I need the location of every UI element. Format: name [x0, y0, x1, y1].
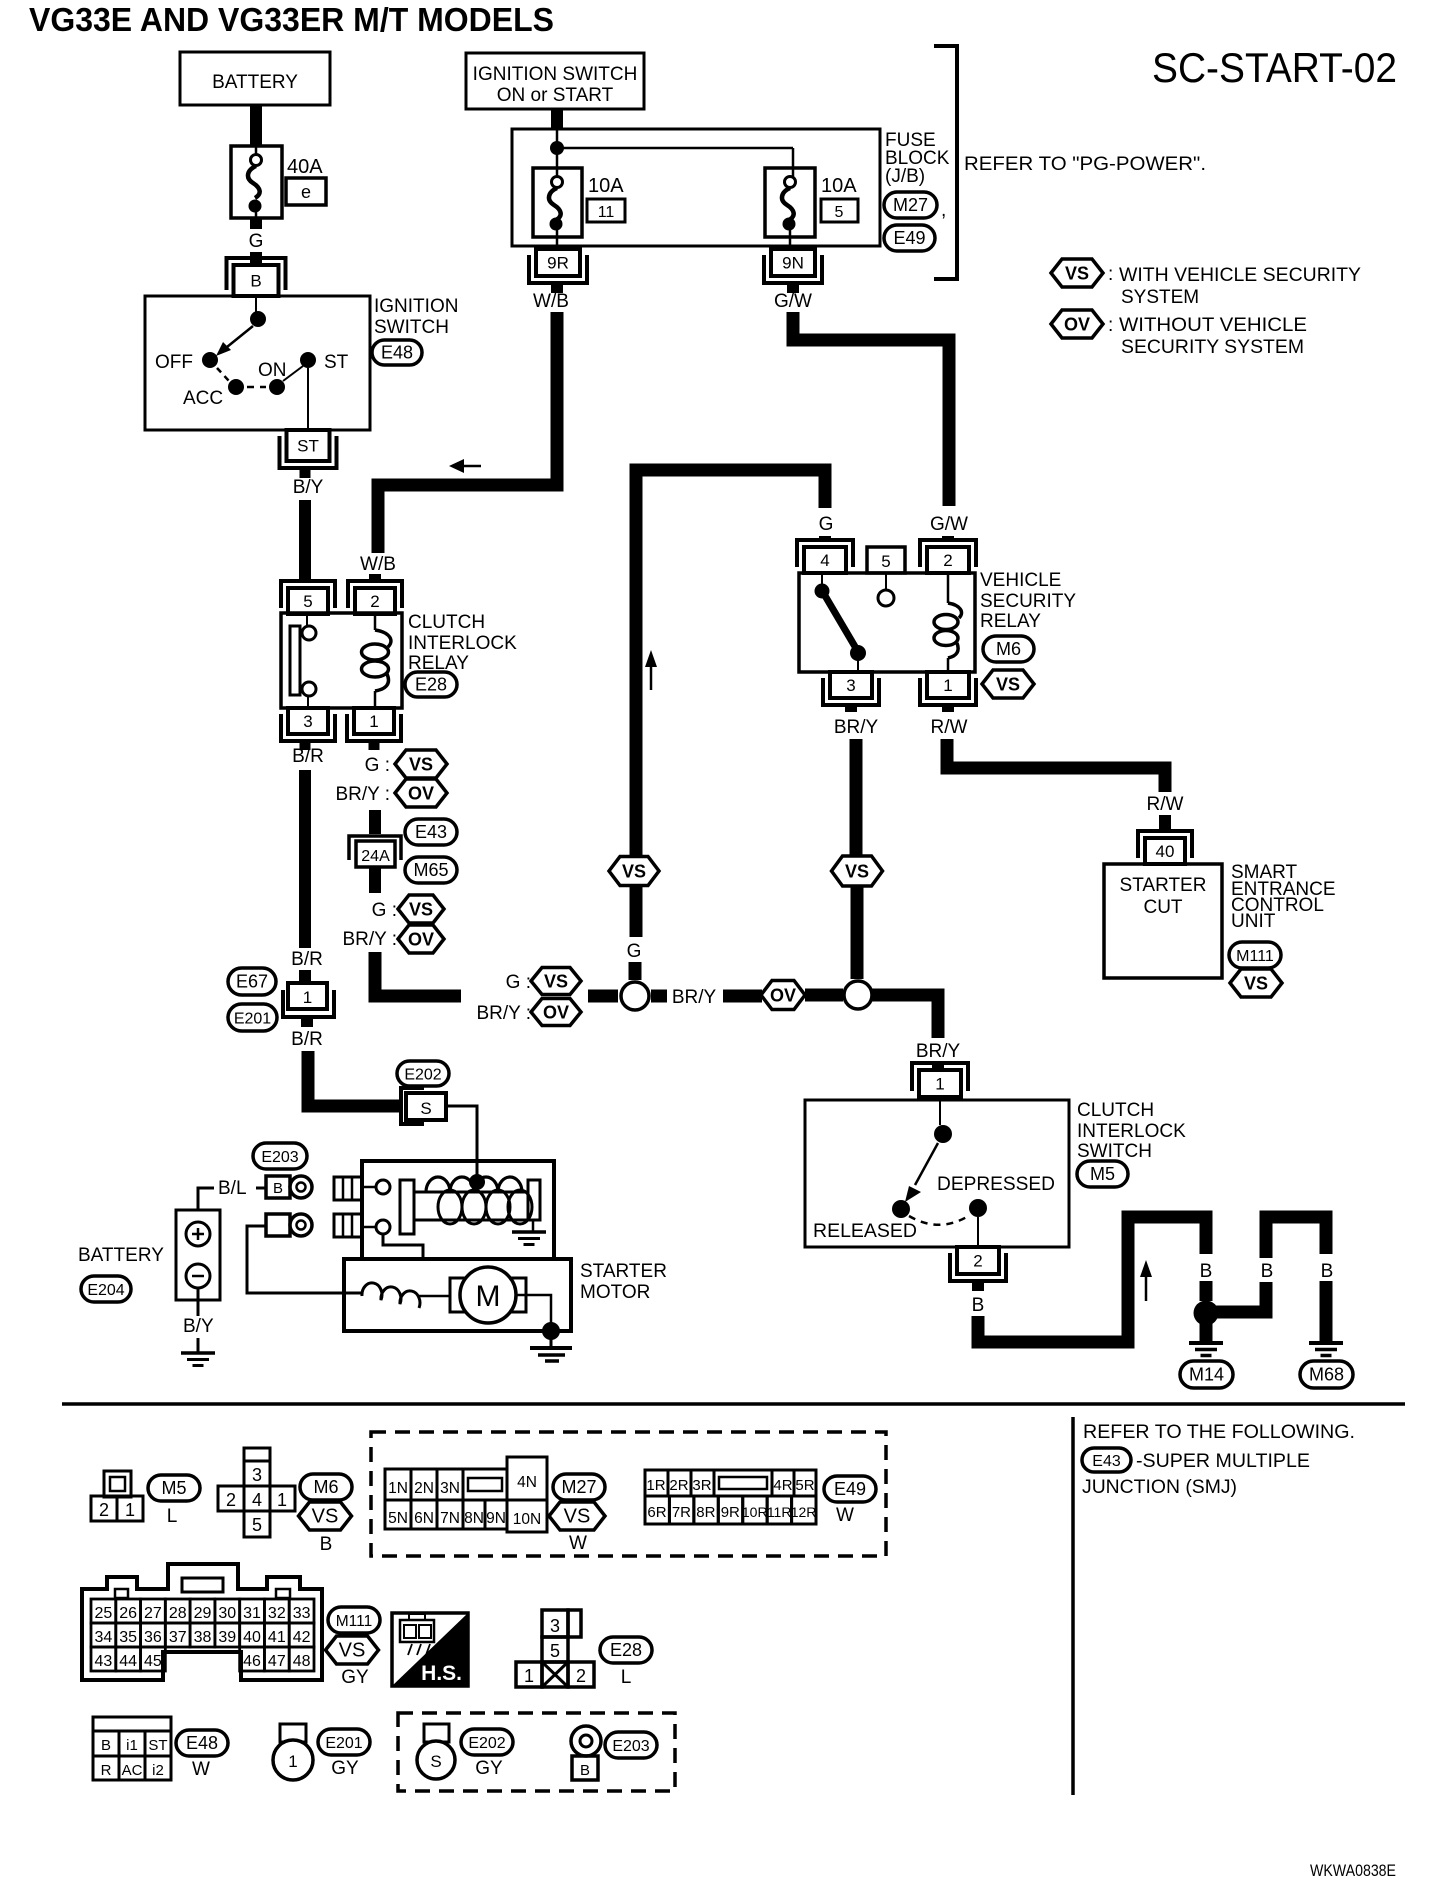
svg-text:VG33E AND VG33ER M/T MODELS: VG33E AND VG33ER M/T MODELS	[29, 1, 554, 38]
wire B/Y ignition to clutch interlock relay pin 5	[300, 468, 311, 582]
connector ref E201 gallery	[318, 1729, 370, 1755]
label IGNITION SWITCH	[374, 296, 458, 338]
svg-text:45: 45	[144, 1653, 162, 1670]
svg-text:5: 5	[252, 1515, 262, 1535]
junction dot solenoid coil	[469, 1174, 485, 1190]
svg-text::: :	[1108, 264, 1113, 285]
svg-text:9R: 9R	[721, 1504, 740, 1521]
legend VS with vehicle security system	[1051, 259, 1361, 308]
svg-text:W: W	[192, 1759, 210, 1780]
wire middle branch up and over	[1266, 1217, 1326, 1258]
connector ref E204	[81, 1276, 131, 1302]
wire label B/R below connector 1	[291, 1029, 323, 1050]
wire label G above node A	[627, 941, 642, 962]
wire G center line to vehicle security relay pin 4	[636, 470, 825, 937]
svg-text:8R: 8R	[696, 1504, 715, 1521]
wire battery to fuse 40A	[250, 105, 262, 146]
svg-text:IGNITION SWITCH: IGNITION SWITCH	[473, 64, 638, 85]
svg-text:i1: i1	[126, 1737, 138, 1754]
wire junction to second branch	[1212, 1282, 1266, 1312]
clutch interlock switch pin 2	[950, 1247, 1006, 1281]
svg-text:INTERLOCK: INTERLOCK	[1077, 1121, 1186, 1142]
svg-text:VS: VS	[312, 1506, 339, 1528]
svg-text:INTERLOCK: INTERLOCK	[408, 633, 517, 654]
svg-text:BR/Y: BR/Y	[916, 1041, 961, 1062]
vehicle security relay pin 4	[797, 540, 853, 573]
svg-text:5N: 5N	[388, 1510, 408, 1527]
connector ref E43	[405, 819, 457, 845]
starter motor field coil	[362, 1283, 450, 1308]
wire stub to pin 40	[1159, 815, 1171, 832]
ignition switch arrow to OFF	[216, 326, 253, 356]
wire BR/Y pin 3 down	[850, 739, 863, 857]
svg-text:36: 36	[144, 1629, 162, 1646]
svg-text:B: B	[580, 1762, 590, 1779]
svg-text:43: 43	[94, 1653, 112, 1670]
svg-text:44: 44	[119, 1653, 137, 1670]
label SMART ENTRANCE CONTROL UNIT	[1231, 862, 1336, 932]
svg-text:M111: M111	[1236, 948, 1274, 965]
vehicle security relay pin 2	[920, 540, 976, 573]
svg-text:40: 40	[243, 1629, 261, 1646]
hexagon VS for M6	[982, 670, 1034, 698]
svg-text::: :	[1108, 315, 1113, 336]
svg-text:SWITCH: SWITCH	[374, 317, 449, 338]
svg-text:E48: E48	[381, 343, 413, 363]
svg-text:B: B	[972, 1295, 985, 1316]
battery supply box	[180, 52, 330, 105]
svg-text:M6: M6	[996, 639, 1021, 659]
svg-text:G: G	[249, 231, 264, 252]
connector ref M6 gallery	[300, 1474, 352, 1500]
svg-text:E49: E49	[893, 228, 925, 248]
label STARTER MOTOR	[580, 1261, 667, 1303]
clutch interlock switch M5 box	[805, 1100, 1069, 1247]
battery positive terminal	[186, 1222, 210, 1246]
svg-text:M111: M111	[336, 1613, 372, 1630]
wire stub node A up	[629, 962, 642, 980]
wire BR/Y to node B	[851, 887, 864, 979]
svg-text:-SUPER MULTIPLE: -SUPER MULTIPLE	[1136, 1451, 1310, 1472]
svg-text:E43: E43	[1092, 1453, 1121, 1470]
svg-text:6R: 6R	[647, 1504, 666, 1521]
svg-text:BATTERY: BATTERY	[212, 72, 298, 93]
wire elbow to junction node A	[375, 952, 461, 996]
svg-text:MOTOR: MOTOR	[580, 1282, 650, 1303]
starter motor box	[344, 1259, 571, 1331]
hexagon VS for M111	[1230, 969, 1282, 997]
connector face M6	[218, 1448, 295, 1537]
starter motor armature M	[450, 1267, 526, 1323]
vehicle security relay M6 box	[799, 573, 975, 672]
label L for M5	[167, 1506, 178, 1527]
wire battery negative down	[197, 1288, 200, 1316]
svg-text:1: 1	[369, 712, 378, 731]
wire label B/L	[218, 1178, 247, 1199]
svg-text:VS: VS	[564, 1506, 591, 1528]
svg-text:E202: E202	[404, 1067, 441, 1084]
solenoid coil winding	[426, 1177, 532, 1224]
connector ref M14	[1180, 1361, 1233, 1388]
connector face M5	[91, 1471, 143, 1521]
wire motor to ground	[516, 1295, 551, 1331]
ignition switch ACC position	[183, 379, 244, 409]
svg-text:26: 26	[119, 1605, 137, 1622]
svg-text:M27: M27	[561, 1477, 596, 1497]
harness symbol H.S.	[392, 1613, 468, 1686]
ignition switch E48 box	[145, 296, 370, 430]
wire B/R down to connector 1	[299, 770, 311, 948]
clutch interlock relay pin 3	[281, 708, 335, 741]
wire stub into connector 1	[299, 970, 311, 983]
svg-text:i2: i2	[152, 1762, 164, 1779]
svg-text:4: 4	[252, 1490, 262, 1510]
junction node inside fuse block	[550, 129, 793, 177]
svg-text:(J/B): (J/B)	[885, 166, 925, 187]
clutch interlock relay pin 1	[347, 708, 401, 741]
svg-text:2R: 2R	[669, 1477, 688, 1494]
svg-text:E49: E49	[834, 1479, 866, 1499]
svg-text:ON: ON	[258, 360, 287, 381]
connector ref E43 SMJ note	[1082, 1448, 1310, 1472]
relay coil M6	[934, 573, 962, 672]
wire name BR/Y with OV below 24A	[342, 925, 444, 953]
connector ref M111 gallery	[328, 1607, 380, 1633]
wire W/B stub below 9R	[551, 283, 563, 293]
svg-text:B/R: B/R	[292, 746, 324, 767]
svg-text:VS: VS	[1244, 974, 1268, 994]
solenoid core	[414, 1180, 540, 1220]
svg-text:,: ,	[941, 200, 946, 221]
connector face E203 ring	[571, 1726, 601, 1780]
svg-text:B: B	[1200, 1261, 1213, 1282]
svg-text:R: R	[101, 1762, 112, 1779]
connector ST below ignition switch	[280, 430, 337, 468]
svg-text:CUT: CUT	[1143, 897, 1182, 918]
connector 24A SMJ	[349, 836, 401, 867]
svg-text:M5: M5	[161, 1478, 186, 1498]
page id SC-START-02	[1152, 44, 1397, 91]
svg-text:BR/Y :: BR/Y :	[476, 1003, 531, 1024]
ignition switch OFF position	[155, 352, 218, 373]
connector ref E48 gallery	[176, 1730, 228, 1756]
battery E204 box	[176, 1210, 220, 1300]
clutch interlock relay pin 2	[348, 581, 402, 614]
connector face M27	[385, 1457, 547, 1532]
starter solenoid box	[362, 1161, 554, 1259]
svg-text:M65: M65	[413, 860, 448, 880]
svg-text:G :: G :	[506, 972, 531, 993]
wire name G : VS at node A	[506, 968, 581, 995]
wire stub below pin 3	[845, 705, 857, 712]
svg-text:M: M	[476, 1280, 501, 1313]
wire node B to clutch interlock switch	[872, 995, 938, 1038]
svg-text:1: 1	[125, 1500, 135, 1520]
connector ref M65	[405, 857, 457, 883]
svg-text:e: e	[301, 182, 311, 202]
svg-text:M68: M68	[1309, 1365, 1344, 1385]
svg-text:ST: ST	[324, 352, 349, 373]
vehicle security relay pin 1	[920, 672, 976, 705]
svg-text:6N: 6N	[414, 1510, 434, 1527]
switch RELEASED contact	[813, 1200, 917, 1242]
ground at starter motor	[530, 1348, 572, 1361]
svg-text:2: 2	[226, 1490, 236, 1510]
svg-text:39: 39	[218, 1629, 236, 1646]
wire label B at M14	[1200, 1261, 1213, 1282]
svg-text:33: 33	[293, 1605, 311, 1622]
wire label BR/Y	[672, 987, 717, 1008]
connector ref E202	[397, 1061, 449, 1086]
wire name BR/Y with OV	[335, 779, 447, 807]
junction dot motor ground	[542, 1322, 560, 1347]
svg-text:12R: 12R	[791, 1504, 817, 1520]
wire stub below pin 3	[300, 741, 311, 750]
svg-text:4: 4	[820, 551, 829, 570]
ignition switch ST position	[300, 352, 349, 373]
solenoid plunger	[400, 1180, 414, 1234]
svg-text:24A: 24A	[361, 848, 390, 865]
svg-text:SWITCH: SWITCH	[1077, 1141, 1152, 1162]
svg-text:OV: OV	[543, 1003, 569, 1023]
svg-text:1: 1	[288, 1752, 297, 1771]
svg-text:B/L: B/L	[218, 1178, 247, 1199]
svg-text:L: L	[167, 1506, 178, 1527]
wire label B middle branch	[1261, 1261, 1274, 1282]
wire BR/Y to OV hexagon	[723, 990, 762, 1003]
junction node B	[844, 981, 872, 1009]
wire stub into pin 4	[819, 536, 831, 542]
wire stub below pin 2	[972, 1281, 984, 1291]
svg-text:1: 1	[303, 988, 312, 1007]
svg-text:VS: VS	[845, 862, 869, 882]
svg-text:RELAY: RELAY	[980, 611, 1041, 632]
svg-text:B/R: B/R	[291, 949, 323, 970]
svg-text:WITH VEHICLE SECURITY: WITH VEHICLE SECURITY	[1119, 265, 1361, 286]
hexagon VS for M6 gallery	[299, 1502, 352, 1530]
svg-text:B: B	[320, 1534, 333, 1555]
wire B/R to starter motor S terminal	[308, 1051, 399, 1106]
svg-text:CLUTCH: CLUTCH	[408, 612, 485, 633]
svg-text:OV: OV	[408, 930, 434, 950]
connector ref E201	[228, 1004, 277, 1031]
svg-text:35: 35	[119, 1629, 137, 1646]
svg-text:E67: E67	[236, 972, 268, 992]
svg-text:3R: 3R	[692, 1477, 711, 1494]
svg-text:VS: VS	[544, 972, 568, 992]
connector ref M6	[983, 636, 1034, 662]
svg-text:B: B	[1261, 1261, 1274, 1282]
svg-text:E201: E201	[234, 1011, 271, 1028]
svg-text:S: S	[430, 1752, 441, 1771]
wire stub to switch pin 1	[932, 1061, 944, 1070]
connector face E201	[273, 1724, 313, 1780]
svg-text:E28: E28	[415, 675, 447, 695]
wire label G/W at relay	[930, 514, 968, 535]
ignition switch dashed gang lines	[217, 366, 303, 387]
ground at battery	[181, 1353, 215, 1366]
svg-text:1R: 1R	[646, 1477, 665, 1494]
refer bracket	[934, 46, 957, 279]
svg-text:34: 34	[94, 1629, 112, 1646]
svg-text:28: 28	[169, 1605, 187, 1622]
battery negative terminal	[186, 1264, 210, 1288]
svg-text:B: B	[101, 1737, 111, 1754]
wire OV to node B	[805, 989, 843, 1002]
hexagon VS for M111 gallery	[326, 1636, 379, 1664]
label VEHICLE SECURITY RELAY	[980, 570, 1076, 632]
wire label B/Y at battery	[183, 1316, 214, 1337]
inline connector 1 E67/E201	[283, 983, 334, 1017]
svg-text:SECURITY: SECURITY	[980, 591, 1076, 612]
connector ref M5 gallery	[148, 1475, 200, 1501]
svg-text:10N: 10N	[513, 1511, 541, 1528]
svg-text:B/Y: B/Y	[293, 477, 324, 498]
relay pin 5 contact	[878, 573, 894, 606]
label CLUTCH INTERLOCK SWITCH	[1077, 1100, 1186, 1162]
wire label B below pin 2	[972, 1295, 985, 1316]
svg-text:11: 11	[598, 204, 615, 221]
svg-text:4N: 4N	[517, 1474, 537, 1491]
wire label W/B	[360, 554, 396, 575]
svg-text:5: 5	[835, 204, 844, 221]
svg-text:REFER TO "PG-POWER".: REFER TO "PG-POWER".	[964, 154, 1206, 175]
wire name G with VS below 24A	[372, 895, 444, 923]
wire label BR/Y below pin 3	[834, 717, 879, 738]
connector ref E48	[372, 340, 422, 365]
svg-text:5: 5	[881, 552, 890, 571]
svg-text:E28: E28	[610, 1640, 642, 1660]
wire name G with VS	[365, 750, 447, 778]
wire label G at pin 4	[819, 514, 834, 535]
connector ref M111	[1229, 942, 1281, 968]
relay contact terminals	[302, 614, 316, 708]
label B for M6	[320, 1534, 333, 1555]
svg-text:GY: GY	[331, 1758, 359, 1779]
solenoid terminal grid upper	[334, 1177, 362, 1200]
connector face M111	[82, 1564, 322, 1680]
svg-text:5: 5	[550, 1641, 560, 1661]
svg-text:BATTERY: BATTERY	[78, 1245, 164, 1266]
svg-text:VS: VS	[1065, 264, 1089, 284]
wire label W/B	[533, 291, 569, 312]
svg-text:CLUTCH: CLUTCH	[1077, 1100, 1154, 1121]
svg-text:2N: 2N	[414, 1480, 434, 1497]
vertical divider	[1071, 1417, 1075, 1795]
svg-text:3N: 3N	[440, 1480, 460, 1497]
label GY for E201	[331, 1758, 359, 1779]
wire stub below pin 1	[369, 741, 380, 750]
label W for E49	[836, 1505, 854, 1526]
svg-text:5: 5	[303, 592, 312, 611]
svg-text:B: B	[1321, 1261, 1334, 1282]
flow arrow up on G line	[645, 650, 657, 690]
svg-text:BR/Y: BR/Y	[834, 717, 879, 738]
wire label B/R above connector 1	[291, 949, 323, 970]
connector ref E28	[405, 672, 457, 697]
relay switch arm	[815, 573, 867, 672]
relay contact bar	[290, 626, 300, 695]
svg-text:R/W: R/W	[931, 717, 968, 738]
fuse 10A 11	[533, 168, 625, 246]
note REFER TO THE FOLLOWING	[1083, 1422, 1355, 1443]
svg-text:B/Y: B/Y	[183, 1316, 214, 1337]
B terminal with ring	[266, 1176, 312, 1198]
connector ref M27 gallery	[553, 1474, 605, 1500]
svg-text:9N: 9N	[486, 1510, 506, 1527]
svg-text:BR/Y :: BR/Y :	[335, 784, 390, 805]
svg-text:48: 48	[293, 1653, 311, 1670]
svg-text:H.S.: H.S.	[421, 1662, 462, 1685]
svg-text:IGNITION: IGNITION	[374, 296, 458, 317]
wire stub into relay pin 2 of M6	[942, 536, 954, 542]
svg-text:VS: VS	[339, 1640, 366, 1662]
svg-text:OV: OV	[770, 986, 796, 1006]
label GY for M111	[341, 1667, 369, 1688]
svg-text:30: 30	[218, 1605, 236, 1622]
switch dashed travel arc	[909, 1215, 970, 1225]
svg-text:ST: ST	[148, 1737, 167, 1754]
svg-text:11R: 11R	[767, 1504, 792, 1520]
ignition switch rotor contact	[250, 296, 266, 327]
svg-text:G/W: G/W	[930, 514, 968, 535]
svg-text:SC-START-02: SC-START-02	[1152, 44, 1397, 91]
wire W/B from 9R to clutch interlock relay pin 2	[378, 312, 557, 553]
svg-text:SECURITY SYSTEM: SECURITY SYSTEM	[1121, 337, 1304, 358]
svg-text:3: 3	[252, 1465, 262, 1485]
wire R/W to smart entrance control unit	[947, 739, 1165, 792]
svg-text:E203: E203	[612, 1738, 649, 1755]
svg-text:G: G	[627, 941, 642, 962]
solenoid contact circles	[362, 1180, 390, 1234]
svg-text:29: 29	[194, 1605, 212, 1622]
wire to battery ground	[197, 1338, 200, 1352]
wire label B/Y	[293, 477, 324, 498]
connector ref E202 gallery	[461, 1729, 513, 1755]
svg-text:1: 1	[943, 676, 952, 695]
svg-text:9R: 9R	[547, 254, 569, 273]
wire label G/W	[774, 291, 812, 312]
wire label R/W at unit	[1147, 794, 1184, 815]
svg-text:E43: E43	[415, 822, 447, 842]
svg-text:10A: 10A	[588, 175, 624, 197]
connector ref M27	[884, 192, 946, 221]
ignition switch ON or START supply box	[466, 53, 644, 109]
clutch interlock relay E28 box	[281, 613, 402, 708]
fuse block J/B box	[512, 129, 880, 246]
svg-text:8N: 8N	[464, 1510, 484, 1527]
svg-text:OV: OV	[1064, 315, 1090, 335]
svg-text:G/W: G/W	[774, 291, 812, 312]
smart entrance control unit box STARTER CUT	[1104, 864, 1222, 978]
wire stub below connector 1	[301, 1017, 313, 1027]
svg-text:1: 1	[935, 1075, 944, 1094]
dashed group box E202 E203	[398, 1713, 675, 1791]
svg-text:BR/Y :: BR/Y :	[342, 929, 397, 950]
svg-text:VS: VS	[622, 862, 646, 882]
svg-text:1: 1	[277, 1490, 287, 1510]
wire to 24A	[369, 810, 381, 834]
hexagon VS for M27 gallery	[549, 1502, 605, 1530]
svg-text:37: 37	[169, 1629, 187, 1646]
wire B staircase to ground M14	[978, 1217, 1206, 1342]
label W for M27	[569, 1533, 587, 1554]
flow arrow up on B wire	[1140, 1260, 1152, 1301]
svg-text:2: 2	[370, 592, 379, 611]
connector ref E67	[228, 968, 276, 995]
S terminal connector	[401, 1088, 446, 1124]
connector ref E49	[884, 225, 935, 251]
